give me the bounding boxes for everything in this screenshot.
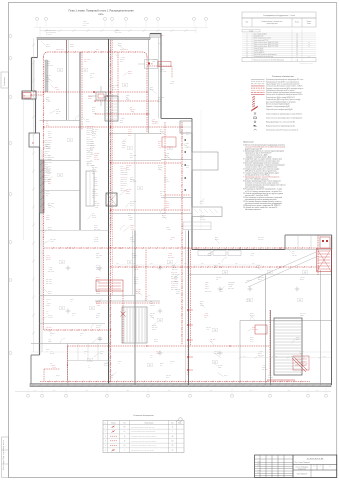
svg-text:Ду65: Ду65 [56,113,59,115]
grid axes top [34,17,208,27]
svg-text:Ду806: Ду806 [48,291,52,293]
svg-text:ПК1-7 (2 шт): ПК1-7 (2 шт) [45,142,52,144]
svg-text:отм.+2,80: отм.+2,80 [300,313,306,315]
svg-text:отм.+2,80: отм.+2,80 [46,281,52,283]
svg-text:6000: 6000 [323,356,326,358]
svg-text:i=0.0024: i=0.0024 [120,118,125,120]
svg-text:Ст.В2-7.1: Ст.В2-7.1 [45,174,50,176]
svg-text:6000: 6000 [291,356,294,358]
wire devices squares [30,51,280,365]
svg-text:шпк-320: шпк-320 [46,257,51,259]
legend title [272,76,295,78]
svg-text:шпк-320: шпк-320 [206,327,211,329]
svg-text:ПК1-4: ПК1-4 [292,251,296,253]
wire branch y210 [111,209,191,211]
svg-text:шпк-3202: шпк-3202 [94,153,100,155]
svg-text:6000: 6000 [116,263,119,265]
svg-text:В2-1.2: В2-1.2 [130,239,134,241]
svg-text:отм.+2,805: отм.+2,805 [48,203,54,205]
svg-text:ПК1-4: ПК1-4 [160,129,164,131]
svg-text:венткам.: венткам. [50,333,56,335]
svg-text:отм.+1,350: отм.+1,350 [87,150,93,152]
svg-text:Ду65: Ду65 [46,125,49,127]
svg-text:Ст.В2-5.1: Ст.В2-5.1 [87,156,92,158]
svg-text:6000: 6000 [184,263,187,265]
svg-text:узел Б лист 6: узел Б лист 6 [45,172,53,174]
svg-text:Ду504: Ду504 [46,81,50,83]
svg-text:Ду80: Ду80 [214,267,217,269]
svg-text:отсек 1. Распредели-: отсек 1. Распредели- [296,467,309,469]
svg-text:Ду504: Ду504 [90,77,94,79]
svg-text:ПК1-5 (2 шт): ПК1-5 (2 шт) [87,147,94,149]
svg-text:Ду659: Ду659 [162,213,166,215]
svg-text:КУИ: КУИ [46,311,48,313]
svg-text:Ду657: Ду657 [48,205,52,207]
svg-text:6000: 6000 [307,356,310,358]
svg-text:L=3,54: L=3,54 [250,255,254,257]
svg-text:выполнить в стальных гильзах,: выполнить в стальных гильзах, зазор запо… [245,183,279,185]
svg-text:Ду506: Ду506 [160,363,164,365]
svg-text:В2-1.27: В2-1.27 [94,239,99,241]
wing dim rows [114,263,262,265]
svg-text:шпк-3207: шпк-3207 [96,325,102,327]
svg-text:6000: 6000 [275,356,278,358]
wire wing main y248 [44,247,318,249]
wire riser to top wall [67,40,119,101]
svg-text:L=3,5: L=3,5 [48,207,51,209]
svg-text:В2-1.25: В2-1.25 [172,267,177,269]
svg-text:Ду658: Ду658 [250,313,254,315]
svg-text:отм.+1,350: отм.+1,350 [87,160,93,162]
bottom legend table [103,418,184,453]
svg-text:1 этаж: 1 этаж [249,30,253,32]
svg-text:Ст.В2-4 Ду50: Ст.В2-4 Ду50 [87,126,95,128]
svg-text:6000: 6000 [252,263,255,265]
svg-text:Ду801: Ду801 [132,253,136,255]
svg-text:Ду804: Ду804 [164,177,168,179]
svg-text:- подводки к пожарным кранам -: - подводки к пожарным кранам - Ду50. [245,156,272,158]
svg-text:Ст.В2-: Ст.В2- [128,133,132,135]
svg-text:140: 140 [169,262,172,264]
svg-text:Ст.В2-7 Ду50: Ст.В2-7 Ду50 [45,161,53,163]
svg-text:112: 112 [171,440,173,442]
svg-text:сеть: сеть [98,13,104,16]
svg-text:оп.4.903-10: оп.4.903-10 [87,154,94,156]
svg-text:Ду65: Ду65 [158,101,161,103]
svg-text:103: 103 [304,272,307,274]
svg-text:Ду508: Ду508 [258,353,262,355]
svg-text:121: 121 [61,308,64,310]
svg-text:узел В: узел В [205,286,209,288]
svg-text:отм.+1,350: отм.+1,350 [171,289,177,291]
svg-text:Ст.В2-: Ст.В2- [48,341,52,343]
svg-text:Ст.В2-5 Ду50: Ст.В2-5 Ду50 [87,145,95,147]
svg-text:Ду50 L=3,4: Ду50 L=3,4 [121,181,127,183]
svg-text:Ст.В2-: Ст.В2- [47,61,51,63]
wire branch y127 [44,126,183,128]
svg-text:оцинкованных труб по ГОСТ 3262: оцинкованных труб по ГОСТ 3262-75*: [245,152,272,154]
svg-text:Ду505: Ду505 [158,99,162,101]
door arcs [60,116,255,344]
svg-text:отм.+2,807: отм.+2,807 [158,97,164,99]
svg-text:характеристика: характеристика [267,23,278,25]
window cells row [198,251,241,256]
svg-text:ООО «Проект»: ООО «Проект» [297,474,308,476]
svg-text:шпк-3205: шпк-3205 [92,189,98,191]
svg-text:Ду509: Ду509 [48,293,52,295]
svg-text:тамбур: тамбур [118,361,122,363]
svg-text:В2-1.29: В2-1.29 [50,353,55,355]
wire branch y92 [33,91,147,93]
svg-text:Отвод 90° Ду50: Отвод 90° Ду50 [254,50,264,52]
svg-text:отм.+2,80: отм.+2,80 [160,191,166,193]
svg-text:Ст.В2-3: Ст.В2-3 [160,35,165,37]
wire wing spine y267 [111,266,321,268]
svg-text:Ду50 L=4,1: Ду50 L=4,1 [45,146,51,148]
svg-text:Условные обозначения:: Условные обозначения: [272,76,295,78]
svg-text:ПК1-2: ПК1-2 [166,377,170,379]
svg-text:8. Проходы трубопроводов через: 8. Проходы трубопроводов через стены и п… [243,181,281,183]
svg-text:L=3,56: L=3,56 [46,79,50,81]
svg-text:Ду65: Ду65 [122,147,125,149]
svg-text:Ду50: Ду50 [94,201,97,203]
svg-text:учетом расстановки технологиче: учетом расстановки технологического обор… [245,203,283,205]
dimension row under wing [31,351,331,353]
svg-text:L=3,52: L=3,52 [92,137,96,139]
svg-text:Приме-: Приме- [307,21,312,23]
svg-text:Ду801: Ду801 [118,43,122,45]
svg-text:шпк-3208: шпк-3208 [126,165,132,167]
svg-text:26: 26 [296,50,298,52]
wire bottom-left L [44,369,60,381]
svg-text:тамбур: тамбур [46,349,50,351]
svg-text:2. Трубопроводы приняты из ста: 2. Трубопроводы приняты из стальных водо… [243,150,284,152]
svg-text:ПК1-9: ПК1-9 [186,134,190,136]
svg-text:Ду651: Ду651 [98,337,102,339]
svg-text:L=3,5: L=3,5 [262,365,265,367]
svg-text:9. Расход воды на внутреннее п: 9. Расход воды на внутреннее пожаротушен… [243,189,282,191]
svg-text:68: 68 [296,42,298,44]
svg-text:Ст.В2-6 Ду50: Ст.В2-6 Ду50 [45,140,53,142]
svg-text:Ду657: Ду657 [70,44,74,46]
svg-text:L=3,59: L=3,59 [134,267,138,269]
svg-text:ПК1-5 (2 шт): ПК1-5 (2 шт) [121,176,128,178]
dimension lines [24,26,202,352]
svg-text:101: 101 [269,272,272,274]
svg-text:i=0.002: i=0.002 [48,267,52,269]
svg-text:Ду654: Ду654 [96,277,100,279]
legend misc symbols [254,112,303,131]
svg-text:В2-1.2: В2-1.2 [56,375,60,377]
wall left protrusion B [29,133,40,147]
svg-text:Наименование и техническая: Наименование и техническая [262,21,283,23]
svg-text:В2-1.21: В2-1.21 [134,279,139,281]
svg-text:Ду504: Ду504 [166,207,170,209]
svg-text:Ду659: Ду659 [88,98,92,100]
svg-text:14: 14 [296,38,298,40]
svg-text:тельная сеть: тельная сеть [298,468,306,470]
interior walls upper block [40,39,193,385]
svg-text:ШПК-320-12 на высоте 1,35 м от: ШПК-320-12 на высоте 1,35 м от уровня по… [245,171,278,173]
svg-text:Ду50: Ду50 [47,63,50,65]
svg-text:3800: 3800 [250,390,253,392]
svg-text:ПК: ПК [151,63,153,65]
svg-text:Наименование: Наименование [145,422,154,424]
svg-text:i=0.0027: i=0.0027 [130,241,135,243]
svg-text:настоящего комплекта.: настоящего комплекта. [245,209,262,211]
svg-text:L=3,5: L=3,5 [130,227,133,229]
svg-text:Ст.В2-9: Ст.В2-9 [126,191,131,193]
svg-text:2400: 2400 [53,390,56,392]
svg-text:насосная: насосная [246,280,251,282]
svg-text:шпк-3207: шпк-3207 [268,377,274,379]
svg-text:отм.+2,809: отм.+2,809 [92,195,98,197]
svg-text:ПК1-5: ПК1-5 [150,315,154,317]
svg-text:оп. по серии: оп. по серии [171,283,178,285]
wire drop left [67,346,69,381]
wing bottom wall hatched [30,384,331,387]
svg-text:отм.-0,300: отм.-0,300 [228,288,234,290]
svg-text:Ду65: Ду65 [92,109,95,111]
grid axes left [1,35,12,355]
svg-text:ПК1-3 (2 шт): ПК1-3 (2 шт) [87,128,94,130]
svg-text:отм.+2,802: отм.+2,802 [96,255,102,257]
svg-text:4120: 4120 [210,390,213,392]
svg-text:В2-1.2: В2-1.2 [134,277,138,279]
svg-text:11: 11 [246,54,248,56]
svg-text:Ду803: Ду803 [94,225,98,227]
svg-text:Н.контр.: Н.контр. [257,469,262,471]
pump leader diagonals [245,252,318,287]
svg-text:(сущ. ввод): (сущ. ввод) [83,22,90,24]
svg-text:покрыть цинконаполненным соста: покрыть цинконаполненным составом в два … [245,161,280,163]
svg-text:i=0.0028: i=0.0028 [128,217,133,219]
svg-text:10. Отметки трубопроводов даны: 10. Отметки трубопроводов даны до оси тр… [243,193,283,195]
svg-text:ПК1-2: ПК1-2 [250,341,254,343]
svg-text:Ду80: Ду80 [166,205,169,207]
svg-text:отм.+2,808: отм.+2,808 [130,201,136,203]
svg-text:Ст.В2-6.1: Ст.В2-6.1 [45,150,50,152]
svg-text:i=0.0022: i=0.0022 [184,143,189,145]
bottom legend table title [133,415,153,417]
svg-text:отм.+2,802: отм.+2,802 [160,71,166,73]
svg-text:Ду65: Ду65 [128,215,131,217]
svg-text:тамбур: тамбур [72,313,76,315]
svg-text:Ду65: Ду65 [92,111,95,113]
svg-text:6000: 6000 [218,263,221,265]
columns [66,266,300,356]
svg-text:отм.+1,350: отм.+1,350 [121,179,127,181]
svg-text:i=0.0024: i=0.0024 [170,81,175,83]
svg-text:Ду50 L=2,8: Ду50 L=2,8 [87,132,93,134]
svg-text:Трубопровод противопожарного в: Трубопровод противопожарного водопровода… [266,79,303,81]
svg-text:105: 105 [61,262,64,264]
svg-text:ПК1-7: ПК1-7 [96,279,100,281]
svg-text:Условные обозначения: Условные обозначения [133,415,153,417]
svg-text:L=3,5: L=3,5 [302,361,305,363]
svg-text:ПК1-10: ПК1-10 [45,177,49,179]
svg-text:шпк-320: шпк-320 [96,301,101,303]
svg-text:Ду50 L=3,2: Ду50 L=3,2 [171,278,177,280]
svg-text:с шагом не более 3 м по серии: с шагом не более 3 м по серии 4.903-10 в… [245,167,278,169]
svg-text:отм.+1,350: отм.+1,350 [121,190,127,192]
svg-text:В2-1.24: В2-1.24 [152,123,157,125]
wing bottom-left step [31,355,40,384]
svg-text:Ст.В2-7: Ст.В2-7 [205,282,209,284]
svg-text:отм.+1,350: отм.+1,350 [45,179,51,181]
svg-text:4120: 4120 [85,390,88,392]
svg-text:шпк-320: шпк-320 [150,313,155,315]
svg-text:L=3,58: L=3,58 [52,367,56,369]
svg-text:L=3,5: L=3,5 [46,191,49,193]
svg-text:Ст.В2-7: Ст.В2-7 [130,225,135,227]
svg-text:в штрабе: в штрабе [45,148,50,150]
svg-text:Ду808: Ду808 [98,339,102,341]
stair shaft [105,96,118,121]
svg-text:Ст.В2-: Ст.В2- [46,219,50,221]
svg-text:i=0.0021: i=0.0021 [166,229,171,231]
svg-text:34: 34 [296,44,298,46]
svg-text:Ду807: Ду807 [94,227,98,229]
svg-text:4.903-10 в.4: 4.903-10 в.4 [171,285,178,287]
svg-text:отм.+1,350: отм.+1,350 [45,144,51,146]
svg-text:В2-1.29: В2-1.29 [46,259,51,261]
svg-text:шпк-320: шпк-320 [300,277,305,279]
red equipment box protrusion [23,93,44,99]
svg-text:Ду80: Ду80 [150,87,153,89]
svg-text:L=3,5: L=3,5 [94,183,97,185]
svg-text:i=0.002: i=0.002 [55,89,59,91]
svg-text:Труба стальная оцинк. Ду50 ГОС: Труба стальная оцинк. Ду50 ГОСТ 3262 [254,46,279,48]
svg-text:Ст.В2-8: Ст.В2-8 [122,145,127,147]
svg-text:Ду50 L=2,2: Ду50 L=2,2 [45,168,51,170]
left riser schedule labels [45,140,53,183]
svg-text:ПК1-5: ПК1-5 [46,44,50,46]
svg-text:24,0: 24,0 [46,313,49,315]
wire cluster mid [95,250,160,345]
svg-text:Ду652: Ду652 [252,327,256,329]
svg-text:Ду80: Ду80 [55,87,58,89]
svg-text:чание: чание [307,23,311,25]
svg-text:Ду806: Ду806 [134,283,138,285]
svg-text:1800: 1800 [316,390,319,392]
svg-text:Ст.В2-: Ст.В2- [96,257,100,259]
svg-text:В2-1.2: В2-1.2 [96,327,100,329]
svg-text:шпк-3201: шпк-3201 [94,203,100,205]
svg-text:м: м [309,42,310,44]
svg-text:L=3,51: L=3,51 [96,303,100,305]
wire branch y330 [44,329,108,331]
svg-text:Труба стальная оцинк. Ду65 ГОС: Труба стальная оцинк. Ду65 ГОСТ 3262 [254,44,279,46]
svg-text:i=0.0022: i=0.0022 [152,59,157,61]
svg-text:В2-1.2: В2-1.2 [132,257,136,259]
svg-text:ПК1-8: ПК1-8 [128,213,132,215]
svg-text:i=0.002: i=0.002 [122,141,126,143]
svg-text:ПК1-6: ПК1-6 [84,61,88,63]
svg-text:2ПК1-11,12: 2ПК1-11,12 [171,272,177,274]
wing right wall [331,235,333,385]
svg-text:Ду65 L=6,2: Ду65 L=6,2 [87,141,93,143]
leader lines [40,42,305,377]
svg-text:шпк-320: шпк-320 [292,255,297,257]
svg-text:i=0.002: i=0.002 [256,265,260,267]
svg-text:отм.+2,80: отм.+2,80 [152,327,158,329]
svg-text:ПК1-8: ПК1-8 [214,265,218,267]
svg-text:L=3,51: L=3,51 [176,291,180,293]
svg-text:П: П [314,466,315,468]
svg-text:Прим.: Прим. [178,422,182,424]
svg-text:ПК1-8: ПК1-8 [45,153,49,155]
svg-text:i=0.002: i=0.002 [250,253,254,255]
svg-text:м: м [309,44,310,46]
svg-text:Ду80: Ду80 [110,377,113,379]
svg-text:i=0.0021: i=0.0021 [120,57,125,59]
svg-text:ПК1-4: ПК1-4 [210,341,214,343]
svg-text:документации марки ВК.: документации марки ВК. [245,148,263,150]
svg-text:Ду50: Ду50 [92,173,95,175]
svg-text:Задвижка с электроприводом Ду8: Задвижка с электроприводом Ду80 [266,106,290,108]
specification rows [242,30,316,65]
svg-text:шпк-320: шпк-320 [90,73,95,75]
wing interior walls [31,231,331,386]
svg-text:отм.+2,80: отм.+2,80 [172,269,178,271]
svg-text:Обозна-: Обозна- [111,422,116,424]
svg-text:14: 14 [296,52,298,54]
wire riser right edge [317,235,319,275]
svg-text:Ду803: Ду803 [130,203,134,205]
svg-text:Ду80: Ду80 [205,284,208,286]
svg-text:Ст.В2-4.1: Ст.В2-4.1 [87,134,92,136]
svg-text:113: 113 [129,262,131,264]
svg-text:ПК1-9: ПК1-9 [186,132,190,134]
svg-text:Ду809: Ду809 [92,215,96,217]
svg-text:Ду653: Ду653 [96,291,100,293]
svg-text:14: 14 [296,34,298,36]
wire riser x196 lower [190,250,192,346]
svg-text:гильза Ду100: гильза Ду100 [171,280,179,282]
svg-text:Ду659: Ду659 [86,121,90,123]
svg-text:Опуски и подъемы трубопроводов: Опуски и подъемы трубопроводов (вертикал… [266,92,303,94]
svg-text:Ду659: Ду659 [158,141,162,143]
svg-text:гильза Ду100: гильза Ду100 [121,172,129,174]
svg-text:шпк-3207: шпк-3207 [126,189,132,191]
svg-text:тамбур: тамбур [70,299,74,301]
wire main loop top [44,52,148,57]
svg-text:12,4: 12,4 [80,335,83,337]
svg-text:венткам.: венткам. [170,361,176,363]
svg-text:в подготовке: в подготовке [228,282,235,284]
svg-text:Ду802: Ду802 [46,46,50,48]
svg-text:1440: 1440 [34,390,37,392]
stair block right [271,310,303,385]
svg-text:Направление уклона трубопровод: Направление уклона трубопровода i=0,002 [266,125,295,127]
svg-text:оп.4.903-10: оп.4.903-10 [121,183,128,185]
riser schedule labels [87,126,95,167]
svg-text:шпк-3205: шпк-3205 [200,219,206,221]
wire branch y163 [111,162,183,164]
node cluster [88,86,114,106]
svg-text:УУ-1: УУ-1 [159,64,162,66]
svg-text:ПК1-6: ПК1-6 [87,158,91,160]
svg-text:Ду508: Ду508 [152,329,156,331]
svg-text:Спецификация оборудования - 1: Спецификация оборудования - 1 этаж [263,14,296,17]
wire riser right x182 [165,122,182,345]
svg-text:шпк-320: шпк-320 [48,317,53,319]
svg-text:шпк-3209: шпк-3209 [164,181,170,183]
svg-text:Ду80: Ду80 [120,122,123,124]
svg-text:Ду80: Ду80 [186,167,189,169]
svg-text:L=3,52: L=3,52 [164,179,168,181]
